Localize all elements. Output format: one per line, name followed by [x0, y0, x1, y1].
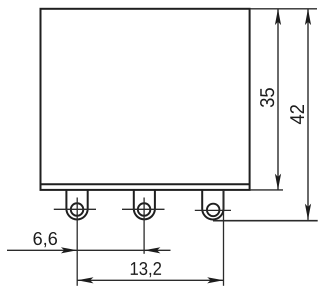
pin 2 tab: [134, 190, 155, 219]
arrowhead 35 down: [275, 174, 281, 190]
extension line at plate bottom (35): [250, 189, 283, 191]
label 35: [260, 88, 274, 107]
pin 3 tab: [202, 190, 223, 220]
pin 1 hole circle: [71, 203, 84, 216]
pin 2 vertical centerline / extension line: [143, 198, 145, 254]
arrowhead 42 down: [305, 204, 311, 220]
pin 1 tab: [66, 190, 87, 220]
arrowhead 42 up: [305, 9, 311, 25]
arrowhead 6,6 right (tip at pin1 line): [61, 247, 77, 253]
extension line at pin bottom (42): [213, 220, 318, 222]
top extension line: [250, 8, 317, 10]
dimension line 13,2: [77, 279, 223, 281]
pin 2 hole circle: [138, 203, 151, 216]
component body outline: [41, 9, 250, 190]
pin 3 hole circle: [207, 204, 220, 217]
pin 1 vertical centerline / extension line: [76, 198, 78, 286]
arrowhead 35 up: [275, 9, 281, 25]
dimension line 6,6: [7, 249, 171, 251]
arrowhead 13,2 left (tip at pin1 line): [77, 277, 93, 283]
label 42: [290, 105, 304, 124]
base plate top line: [41, 183, 250, 185]
arrowhead 13,2 right (tip at pin3 line): [207, 277, 223, 283]
pin 2 horizontal centerline: [122, 208, 165, 210]
dimension line 35: [277, 9, 279, 190]
arrowhead 6,6 left (tip at pin2 line): [144, 247, 160, 253]
pin 3 right-edge extension line: [223, 190, 225, 286]
pin 1 horizontal centerline: [54, 208, 96, 210]
label 13,2: [131, 262, 161, 277]
pin 3 horizontal centerline: [195, 209, 231, 211]
dimension line 42: [307, 9, 309, 220]
label 6,6: [34, 232, 57, 247]
